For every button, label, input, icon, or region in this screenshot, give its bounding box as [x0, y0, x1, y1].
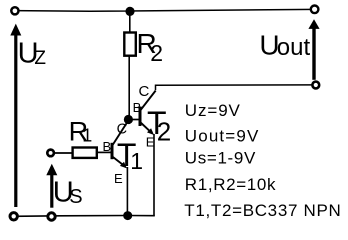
label Uout: [259, 29, 310, 61]
terminal bottom-mid: [48, 213, 55, 220]
terminal top-right: [311, 6, 319, 14]
svg-text:1: 1: [82, 126, 92, 146]
svg-text:Z: Z: [34, 48, 46, 69]
svg-text:Uz=9V: Uz=9V: [185, 101, 241, 120]
transistor T2: [140, 91, 156, 136]
label Uz: [18, 38, 47, 70]
resistor R1: [73, 148, 97, 158]
svg-text:out: out: [277, 34, 311, 61]
wire top rail: [15, 9, 315, 11]
terminal Us: [47, 150, 54, 157]
label R1: [69, 116, 93, 146]
wire T1 emitter down: [126, 167, 128, 216]
svg-text:C: C: [117, 121, 127, 137]
wire rail to R2: [129, 11, 131, 33]
voltage arrow Us: [46, 164, 57, 208]
node junction bottom (T1 emitter / rail): [123, 211, 132, 220]
resistor R2: [124, 33, 136, 56]
label T2: [147, 105, 171, 147]
label Us: [53, 176, 83, 208]
svg-text:C: C: [139, 83, 150, 100]
wire R2 to node: [128, 56, 130, 117]
wire T2 base: [128, 119, 138, 121]
terminal top-left: [11, 7, 18, 14]
svg-text:2: 2: [150, 40, 163, 66]
svg-text:R1,R2=10k: R1,R2=10k: [185, 175, 276, 194]
terminal bottom-left: [10, 213, 17, 220]
svg-text:Us=1-9V: Us=1-9V: [185, 148, 256, 167]
voltage arrow Uout: [308, 19, 319, 80]
label T1: [117, 137, 143, 174]
svg-text:T1,T2=BC337 NPN: T1,T2=BC337 NPN: [184, 201, 341, 220]
svg-text:2: 2: [157, 116, 171, 146]
wire R1 to T1 base: [97, 151, 111, 153]
transistor T1: [112, 121, 128, 168]
voltage arrow Uz: [10, 24, 21, 207]
svg-text:E: E: [114, 171, 123, 186]
node junction mid (R2 / T1 collector / T2 base): [124, 115, 133, 124]
svg-text:1: 1: [130, 148, 143, 174]
terminal Uout lower: [312, 82, 319, 89]
wire T2 collector to Uout: [156, 85, 312, 90]
svg-text:B: B: [133, 100, 142, 115]
svg-text:S: S: [69, 186, 82, 208]
wire T2 emitter down: [153, 134, 155, 216]
node junction top (rail / R2): [125, 7, 134, 16]
label R2: [137, 28, 164, 66]
svg-text:Uout=9V: Uout=9V: [185, 126, 260, 145]
svg-text:B: B: [103, 139, 112, 154]
wire bottom rail: [14, 215, 155, 218]
wire Us to R1: [55, 152, 73, 154]
